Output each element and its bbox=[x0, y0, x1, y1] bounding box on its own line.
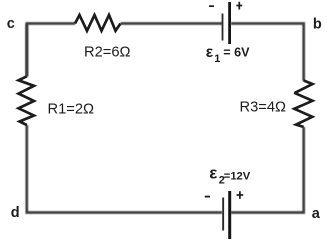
node a bbox=[312, 206, 321, 222]
wire: R3 down to node a corner and left to battery E2 bbox=[231, 127, 304, 213]
svg-text:=12V: =12V bbox=[224, 171, 251, 183]
svg-text:ε: ε bbox=[209, 164, 217, 183]
svg-text:c: c bbox=[7, 16, 15, 32]
node d bbox=[11, 205, 20, 221]
svg-text:b: b bbox=[313, 17, 322, 33]
battery E2 minus sign bbox=[205, 196, 210, 198]
label R2=6Omega bbox=[84, 44, 131, 60]
svg-text:1: 1 bbox=[214, 53, 220, 65]
node c bbox=[7, 16, 15, 32]
svg-text:R1=2Ω: R1=2Ω bbox=[48, 101, 95, 117]
battery E2 plus sign bbox=[237, 191, 244, 199]
battery E1 negative plate (short) bbox=[222, 14, 224, 41]
resistor R1 bbox=[19, 76, 35, 125]
wire: battery E2 to node d corner and up left side to R1 bbox=[27, 125, 222, 213]
wire: node c corner (top-left, horizontal to R2 and down left side) bbox=[27, 24, 75, 77]
battery E2 negative plate (short) bbox=[222, 198, 224, 231]
svg-text:R2=6Ω: R2=6Ω bbox=[84, 44, 131, 60]
wire: battery E1 to node b corner and down right side to R3 bbox=[231, 24, 304, 82]
label E1 = 6V bbox=[206, 44, 250, 65]
node b bbox=[313, 17, 322, 33]
battery E1 positive plate (long) bbox=[228, 2, 231, 44]
label R3=4Omega bbox=[240, 99, 287, 115]
label E2=12V bbox=[209, 164, 251, 187]
resistor R3 bbox=[294, 81, 312, 128]
svg-text:a: a bbox=[312, 206, 321, 222]
svg-text:= 6V: = 6V bbox=[223, 46, 250, 60]
wire: R2 to battery E1 (top middle) bbox=[121, 22, 223, 25]
wire: R1 up to node c corner bbox=[25, 24, 28, 77]
svg-text:R3=4Ω: R3=4Ω bbox=[240, 99, 287, 115]
label R1=2Omega bbox=[48, 101, 95, 117]
battery E1 plus sign bbox=[236, 2, 242, 10]
svg-text:d: d bbox=[11, 205, 20, 221]
battery E2 positive plate (long) bbox=[228, 191, 231, 239]
resistor R2 bbox=[75, 15, 121, 31]
battery E1 minus sign bbox=[209, 5, 214, 7]
svg-text:ε: ε bbox=[206, 44, 214, 61]
